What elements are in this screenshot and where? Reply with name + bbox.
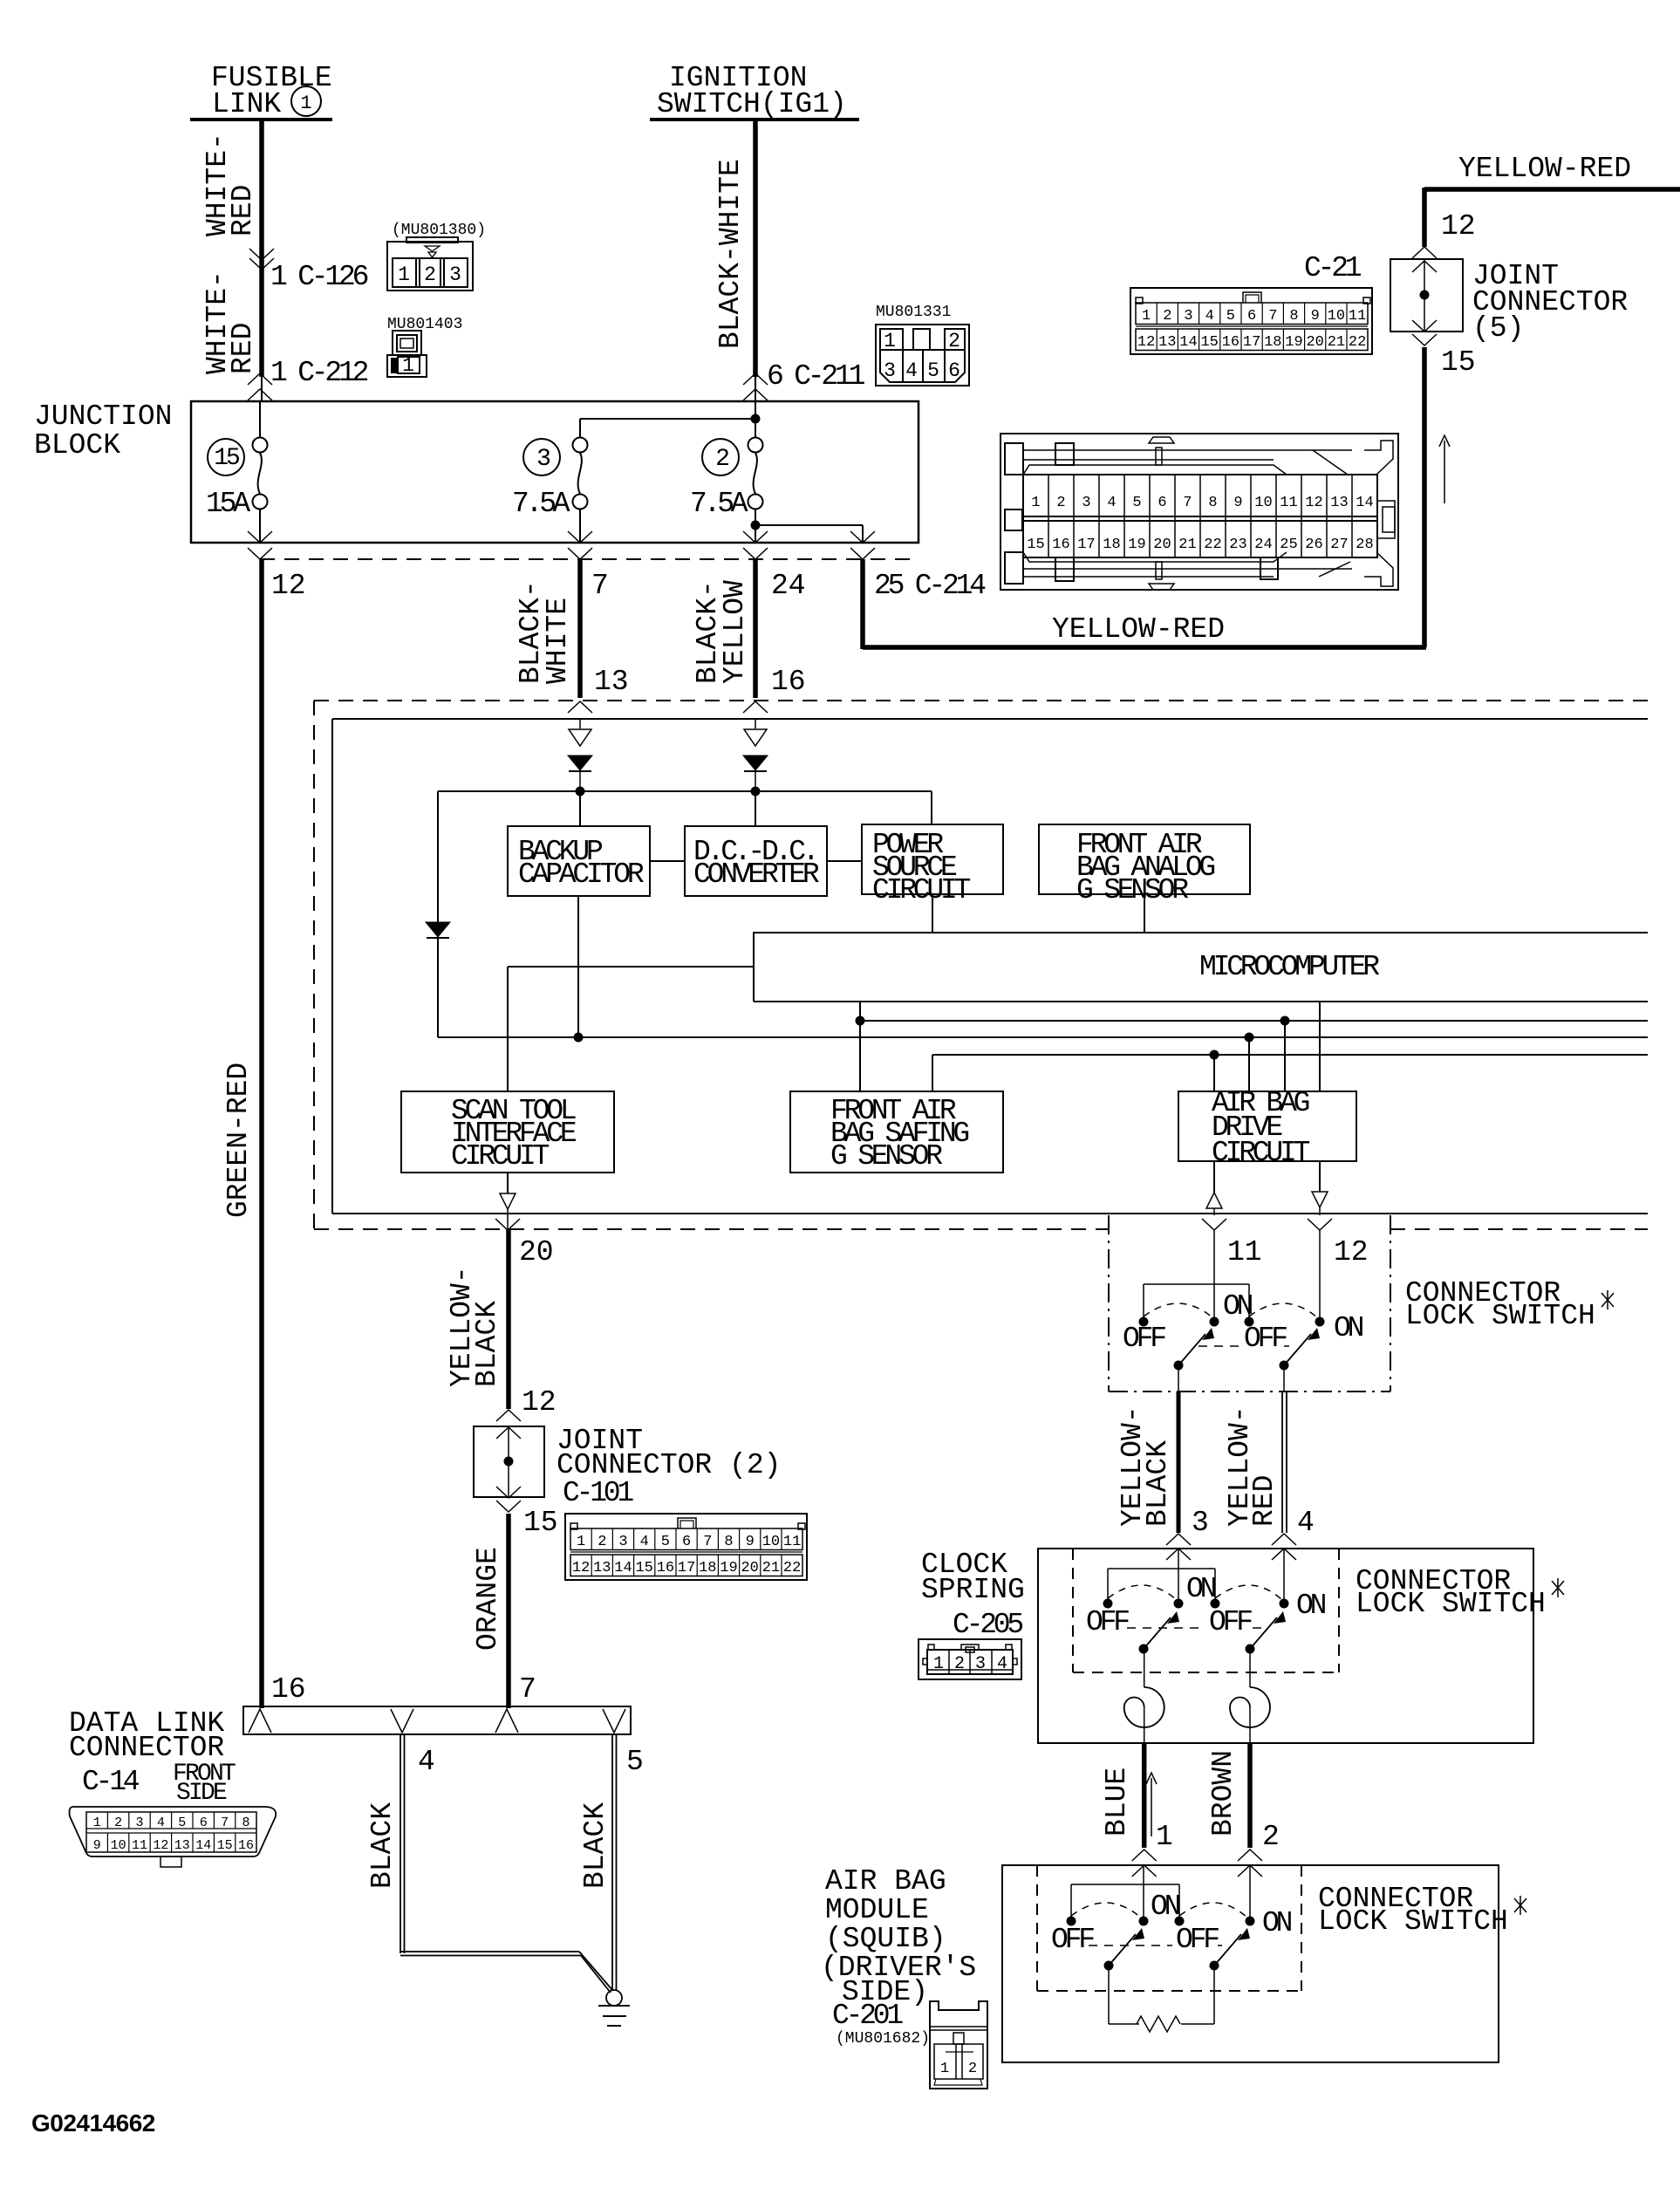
- wire junction block internal: fuse2 bottom to pin25: [751, 521, 864, 544]
- wire label WHITE-RED upper: [201, 133, 259, 236]
- connector lock switch 1 box: [1109, 1215, 1614, 1392]
- svg-text:7: 7: [519, 1673, 536, 1706]
- svg-text:1 C-212: 1 C-212: [270, 357, 368, 389]
- svg-text:CIRCUIT: CIRCUIT: [872, 874, 971, 906]
- junction block pin 12 exit: [248, 531, 306, 602]
- wire BLACK-WHITE fuse3 to SRS pin 13: [515, 559, 629, 713]
- block D.C.-D.C. CONVERTER: [650, 791, 827, 896]
- svg-text:27: 27: [1330, 537, 1348, 553]
- SRS air bag control unit inner solid box: [332, 719, 1648, 1214]
- svg-text:2: 2: [1163, 308, 1171, 325]
- microcomputer output line A: [856, 1016, 1649, 1026]
- svg-text:9: 9: [1311, 308, 1320, 325]
- svg-text:24: 24: [771, 570, 806, 602]
- label data link pin 4: [418, 1746, 435, 1778]
- connector icon C-212 (MU801403): [387, 316, 462, 377]
- block BACKUP CAPACITOR: [508, 791, 650, 1037]
- svg-text:CIRCUIT: CIRCUIT: [1212, 1137, 1310, 1169]
- svg-text:YELLOW-RED: YELLOW-RED: [1052, 613, 1225, 646]
- ground symbol: [598, 1990, 630, 2026]
- svg-text:BROWN: BROWN: [1207, 1750, 1240, 1836]
- junction block pin 7 exit: [568, 531, 609, 602]
- svg-text:14: 14: [1356, 495, 1373, 511]
- wire label BLACK-WHITE: [714, 159, 747, 349]
- lock switch 1 labels ON OFF: [1123, 1290, 1363, 1355]
- junction block box: [34, 400, 919, 543]
- figure number G02414662: [31, 2110, 155, 2137]
- svg-text:G02414662: G02414662: [31, 2110, 155, 2137]
- svg-text:OFF: OFF: [1051, 1924, 1094, 1956]
- protection diode on line 16: [743, 719, 768, 791]
- svg-text:1: 1: [398, 263, 410, 286]
- svg-text:CONNECTOR: CONNECTOR: [69, 1732, 224, 1764]
- svg-text:1: 1: [300, 92, 311, 114]
- connector C-214 pin row (dashed) under junction block: [260, 558, 919, 560]
- svg-text:GREEN-RED: GREEN-RED: [222, 1063, 255, 1218]
- svg-text:6: 6: [1247, 308, 1256, 325]
- svg-text:2: 2: [1056, 495, 1065, 511]
- svg-text:23: 23: [1229, 537, 1246, 553]
- svg-text:1: 1: [1142, 308, 1151, 325]
- svg-text:3: 3: [1192, 1507, 1209, 1539]
- clock spring coil 2: [1230, 1649, 1270, 1743]
- svg-text:18: 18: [1103, 537, 1120, 553]
- svg-text:BLACK: BLACK: [579, 1802, 611, 1889]
- svg-text:13: 13: [1158, 334, 1176, 351]
- svg-text:10: 10: [1328, 308, 1345, 325]
- svg-text:6: 6: [948, 359, 960, 382]
- lock switch 3 travel arcs: [1071, 1903, 1247, 1918]
- data link connector pin 4: [391, 1709, 413, 1733]
- svg-text:(5): (5): [1472, 312, 1524, 345]
- svg-text:10: 10: [111, 1838, 126, 1853]
- lock switch 2 travel arcs: [1108, 1585, 1282, 1600]
- svg-text:BLACK-WHITE: BLACK-WHITE: [714, 159, 747, 349]
- svg-text:20: 20: [519, 1236, 554, 1268]
- left branch with diode to scan line: [426, 791, 450, 1037]
- svg-text:OFF: OFF: [1123, 1323, 1165, 1355]
- wire GREEN-RED junction block pin12 to data link pin16: [222, 559, 306, 1708]
- svg-text:5: 5: [626, 1746, 644, 1778]
- svg-text:1: 1: [933, 1654, 944, 1674]
- block FRONT AIR BAG ANALOG G SENSOR: [1039, 824, 1250, 933]
- data link connector pin 7: [495, 1709, 518, 1733]
- svg-text:ON: ON: [1151, 1891, 1180, 1923]
- label data link pin 5: [626, 1746, 644, 1778]
- svg-text:16: 16: [271, 1673, 306, 1706]
- connector icon C-201 (MU801682): [930, 2001, 987, 2089]
- block AIR BAG DRIVE CIRCUIT: [1178, 1002, 1356, 1169]
- svg-text:(MU801682): (MU801682): [836, 2030, 930, 2048]
- svg-text:17: 17: [1243, 334, 1260, 351]
- svg-text:3: 3: [1184, 308, 1192, 325]
- data link connector box: [69, 1706, 631, 1807]
- lock switch 1 pole blades: [1174, 1328, 1321, 1371]
- lock switch 3 pole blades: [1089, 1928, 1250, 1971]
- svg-text:13: 13: [594, 666, 629, 698]
- svg-text:25: 25: [1280, 537, 1297, 553]
- power source IGNITION SWITCH (IG1): [650, 62, 859, 120]
- svg-text:CIRCUIT: CIRCUIT: [451, 1140, 550, 1173]
- fuse 3 (7.5A): [512, 419, 588, 543]
- svg-text:11: 11: [1227, 1236, 1262, 1268]
- svg-text:YELLOW: YELLOW: [719, 580, 751, 684]
- svg-text:22: 22: [1349, 334, 1366, 351]
- svg-text:15: 15: [1441, 346, 1476, 379]
- svg-text:17: 17: [678, 1560, 695, 1576]
- power source FUSIBLE LINK 1: [190, 62, 332, 120]
- svg-text:JUNCTION: JUNCTION: [34, 400, 172, 433]
- svg-text:9: 9: [746, 1534, 755, 1550]
- wire scan tool to microcomputer: [508, 967, 754, 1091]
- svg-text:C-205: C-205: [953, 1609, 1022, 1641]
- svg-text:5: 5: [1132, 495, 1141, 511]
- svg-text:12: 12: [271, 570, 306, 602]
- svg-text:15: 15: [1200, 334, 1218, 351]
- drive circuit output pin 11 triangle: [1202, 1161, 1262, 1268]
- svg-text:8: 8: [1289, 308, 1298, 325]
- svg-text:OFF: OFF: [1244, 1323, 1287, 1355]
- svg-text:2: 2: [424, 263, 436, 286]
- svg-text:LOCK SWITCH: LOCK SWITCH: [1356, 1588, 1546, 1620]
- svg-text:4: 4: [418, 1746, 435, 1778]
- microcomputer output line B: [438, 1033, 1648, 1043]
- scan tool output with triangle to pin 20: [495, 1173, 554, 1268]
- svg-text:1: 1: [1156, 1821, 1173, 1853]
- wire YELLOW-RED lock switch to clock spring pin 4: [1224, 1365, 1315, 1560]
- svg-text:2: 2: [968, 2061, 977, 2077]
- svg-text:BLACK: BLACK: [366, 1802, 399, 1889]
- svg-text:11: 11: [1280, 495, 1297, 511]
- connector icon C-126 (MU801380): [387, 222, 486, 291]
- lock switch 3 OFF contacts bracket: [1067, 1884, 1185, 1926]
- svg-text:21: 21: [762, 1560, 780, 1576]
- svg-text:1: 1: [884, 330, 896, 352]
- wire label WHITE-RED lower: [201, 270, 259, 374]
- svg-text:MICROCOMPUTER: MICROCOMPUTER: [1199, 951, 1379, 983]
- fuse 2 (7.5A): [690, 401, 763, 543]
- wire BLACK data link pin4 to ground: [366, 1734, 612, 1993]
- svg-text:7: 7: [591, 570, 609, 602]
- svg-text:8: 8: [1208, 495, 1217, 511]
- svg-text:14: 14: [614, 1560, 632, 1576]
- svg-text:3: 3: [135, 1815, 143, 1830]
- connector C-211 pin 6 entry to junction block: [743, 360, 865, 400]
- connector icon C-205: [919, 1639, 1021, 1679]
- svg-text:12: 12: [1305, 495, 1322, 511]
- svg-text:22: 22: [783, 1560, 801, 1576]
- svg-text:12: 12: [1441, 210, 1476, 243]
- connector icon C-14 (16 pin OBD): [70, 1807, 277, 1867]
- svg-text:9: 9: [1233, 495, 1242, 511]
- svg-text:1: 1: [402, 354, 414, 377]
- svg-text:7.5A: 7.5A: [690, 488, 748, 520]
- svg-text:7.5A: 7.5A: [512, 488, 570, 520]
- lock switch 3 labels ON OFF: [1051, 1891, 1292, 1956]
- svg-text:6: 6: [1158, 495, 1166, 511]
- joint connector (5) C-21 pin 12 entry: [1412, 210, 1476, 272]
- svg-text:CONVERTER: CONVERTER: [693, 858, 819, 891]
- joint connector (2) pin 15 exit: [496, 1487, 558, 1539]
- svg-text:24: 24: [1254, 537, 1272, 553]
- svg-text:BLOCK: BLOCK: [34, 429, 120, 462]
- wire BLACK data link pin5 to ground: [579, 1734, 617, 1991]
- direction arrow near C-214: [1439, 435, 1450, 503]
- joint connector (5) pin 15 exit: [1412, 320, 1476, 379]
- svg-text:MU801331: MU801331: [876, 304, 951, 321]
- svg-text:2: 2: [114, 1815, 122, 1830]
- svg-text:9: 9: [93, 1838, 101, 1853]
- svg-text:14: 14: [195, 1838, 211, 1853]
- svg-text:18: 18: [699, 1560, 716, 1576]
- svg-text:4: 4: [905, 359, 918, 382]
- wire BLACK-YELLOW fuse2 to SRS pin 16: [692, 559, 806, 713]
- svg-text:19: 19: [1285, 334, 1302, 351]
- svg-text:19: 19: [1128, 537, 1145, 553]
- svg-text:ON: ON: [1296, 1590, 1326, 1622]
- lock switch 2 wire 4 to ON contact: [1280, 1549, 1289, 1609]
- svg-text:8: 8: [242, 1815, 249, 1830]
- internal supply bus: [438, 787, 932, 825]
- wire microcomputer to safing sensor: [859, 1002, 861, 1091]
- connector C-212 pin 1 entry to junction block: [248, 357, 368, 400]
- svg-text:16: 16: [1222, 334, 1240, 351]
- wire junction block internal: fuse3 top to IG1 feed: [580, 414, 761, 424]
- svg-text:C-21: C-21: [1304, 252, 1362, 284]
- block MICROCOMPUTER: [754, 933, 1648, 1002]
- wire BLACK-WHITE from ignition switch: [753, 120, 758, 401]
- svg-text:21: 21: [1178, 537, 1196, 553]
- lock switch 2 labels ON OFF: [1086, 1573, 1326, 1638]
- svg-text:1: 1: [940, 2061, 949, 2077]
- svg-text:16: 16: [771, 666, 806, 698]
- svg-text:SIDE: SIDE: [176, 1780, 227, 1807]
- svg-text:SWITCH(IG1): SWITCH(IG1): [657, 88, 847, 120]
- svg-text:G SENSOR: G SENSOR: [830, 1140, 942, 1173]
- protection diode on line 13: [568, 719, 592, 791]
- svg-text:4: 4: [1107, 495, 1116, 511]
- svg-text:7: 7: [1268, 308, 1277, 325]
- svg-text:2: 2: [1262, 1821, 1280, 1853]
- wire BLUE clock spring to air bag module pin 1: [1101, 1743, 1173, 1877]
- lock switch 3 wire 2 to ON contact: [1246, 1865, 1255, 1926]
- connector icon C-21 (22 pin): [1130, 252, 1372, 354]
- svg-text:OFF: OFF: [1209, 1606, 1252, 1638]
- svg-text:12: 12: [572, 1560, 590, 1576]
- clock spring box: [921, 1549, 1533, 1743]
- svg-text:16: 16: [238, 1838, 254, 1853]
- block FRONT AIR BAG SAFING G SENSOR: [790, 1091, 1003, 1173]
- svg-text:RED: RED: [1248, 1475, 1280, 1527]
- svg-text:13: 13: [174, 1838, 190, 1853]
- svg-text:26: 26: [1305, 537, 1322, 553]
- svg-text:RED: RED: [227, 323, 259, 374]
- svg-text:C-14: C-14: [82, 1766, 140, 1798]
- svg-text:4: 4: [1205, 308, 1214, 325]
- svg-text:ON: ON: [1262, 1907, 1292, 1939]
- lock switch 1 travel arcs: [1144, 1303, 1318, 1318]
- clock spring coil 1: [1124, 1649, 1164, 1743]
- svg-text:OFF: OFF: [1176, 1924, 1219, 1956]
- svg-text:17: 17: [1077, 537, 1095, 553]
- svg-text:15A: 15A: [206, 488, 250, 520]
- svg-text:1: 1: [577, 1534, 585, 1550]
- lock switch 2 pole blades: [1127, 1611, 1286, 1654]
- connector icon C-211 (MU801331): [876, 304, 969, 386]
- svg-text:BLACK: BLACK: [471, 1301, 503, 1387]
- wire YELLOW-BLACK lock switch to clock spring pin 3: [1117, 1365, 1209, 1560]
- svg-text:ON: ON: [1186, 1573, 1216, 1605]
- svg-text:12: 12: [1137, 334, 1155, 351]
- svg-text:20: 20: [1306, 334, 1323, 351]
- svg-text:CAPACITOR: CAPACITOR: [518, 858, 644, 891]
- svg-text:16: 16: [1052, 537, 1069, 553]
- svg-text:10: 10: [762, 1534, 780, 1550]
- svg-text:12: 12: [522, 1386, 557, 1419]
- wire YELLOW-RED pin25 drop: [860, 559, 865, 649]
- svg-text:(SQUIB): (SQUIB): [825, 1923, 946, 1955]
- wire WHITE-RED from fusible link: [259, 120, 264, 401]
- svg-text:AIR BAG: AIR BAG: [825, 1865, 946, 1898]
- svg-text:7: 7: [221, 1815, 229, 1830]
- svg-text:12: 12: [153, 1838, 168, 1853]
- svg-text:16: 16: [657, 1560, 674, 1576]
- joint connector (5) box: [1390, 259, 1628, 345]
- svg-text:C-101: C-101: [563, 1477, 633, 1509]
- svg-text:ORANGE: ORANGE: [472, 1547, 504, 1651]
- wire ORANGE joint connector 2 to data link pin 7: [472, 1514, 536, 1708]
- svg-text:8: 8: [724, 1534, 733, 1550]
- svg-text:SPRING: SPRING: [921, 1574, 1025, 1606]
- junction block pin 24 exit: [743, 531, 806, 602]
- svg-text:28: 28: [1356, 537, 1373, 553]
- svg-text:25 C-214: 25 C-214: [874, 570, 986, 602]
- svg-text:4: 4: [640, 1534, 649, 1550]
- svg-text:11: 11: [132, 1838, 147, 1853]
- svg-text:5: 5: [178, 1815, 186, 1830]
- fuse 15 (15A): [206, 401, 268, 543]
- squib resistor: [1109, 1966, 1214, 2032]
- svg-text:2: 2: [715, 446, 728, 473]
- svg-text:4: 4: [997, 1654, 1007, 1674]
- svg-text:13: 13: [1330, 495, 1348, 511]
- svg-text:6: 6: [682, 1534, 691, 1550]
- svg-text:12: 12: [1334, 1236, 1369, 1268]
- svg-text:3: 3: [618, 1534, 627, 1550]
- wire label YELLOW-RED under C-214: [1052, 613, 1225, 646]
- svg-text:13: 13: [593, 1560, 611, 1576]
- svg-text:19: 19: [720, 1560, 737, 1576]
- svg-text:6 C-211: 6 C-211: [767, 360, 865, 393]
- svg-text:15: 15: [217, 1838, 233, 1853]
- svg-text:4: 4: [157, 1815, 165, 1830]
- svg-text:ON: ON: [1334, 1312, 1363, 1344]
- direction arrow near BLUE wire: [1146, 1773, 1157, 1836]
- svg-text:BLUE: BLUE: [1101, 1768, 1133, 1836]
- svg-text:18: 18: [1264, 334, 1281, 351]
- svg-text:YELLOW-RED: YELLOW-RED: [1458, 153, 1631, 185]
- data link connector pin 5: [603, 1709, 625, 1733]
- svg-text:BLACK: BLACK: [1142, 1440, 1174, 1527]
- svg-text:22: 22: [1204, 537, 1221, 553]
- connector C-126 inline marker pin 1: [249, 249, 368, 293]
- svg-text:C-201: C-201: [832, 2000, 903, 2032]
- svg-text:15: 15: [1027, 537, 1044, 553]
- svg-text:ON: ON: [1223, 1290, 1253, 1323]
- svg-text:MODULE: MODULE: [825, 1894, 929, 1926]
- svg-text:LOCK SWITCH: LOCK SWITCH: [1405, 1300, 1595, 1332]
- svg-text:2: 2: [948, 330, 960, 352]
- wire YELLOW-BLACK SRS pin20 to joint connector 2: [446, 1229, 557, 1439]
- svg-text:3: 3: [1082, 495, 1090, 511]
- svg-text:OFF: OFF: [1086, 1606, 1129, 1638]
- svg-text:4: 4: [1297, 1507, 1315, 1539]
- connector lock switch 3 box (dashed): [1037, 1865, 1526, 1991]
- svg-text:3: 3: [449, 263, 461, 286]
- svg-text:20: 20: [741, 1560, 758, 1576]
- svg-text:10: 10: [1254, 495, 1272, 511]
- lock switch 3 wire 1 to ON contact: [1139, 1865, 1149, 1926]
- svg-text:1 C-126: 1 C-126: [270, 261, 368, 293]
- lock switch 2 wire 3 to ON contact: [1174, 1549, 1184, 1609]
- microcomputer output line C: [932, 1050, 1648, 1092]
- svg-text:15: 15: [635, 1560, 652, 1576]
- svg-text:1: 1: [1031, 495, 1040, 511]
- svg-text:7: 7: [1183, 495, 1192, 511]
- joint connector (2) box C-101 pin 12: [474, 1425, 781, 1509]
- connector icon C-214 (28 pin): [1000, 434, 1398, 590]
- svg-text:5: 5: [661, 1534, 670, 1550]
- block SCAN TOOL INTERFACE CIRCUIT: [401, 1091, 614, 1173]
- svg-text:14: 14: [1179, 334, 1197, 351]
- svg-text:1: 1: [93, 1815, 101, 1830]
- svg-text:15: 15: [214, 445, 240, 472]
- svg-text:3: 3: [884, 359, 896, 382]
- SRS air bag control unit outer dashed box: [314, 701, 1648, 1229]
- block POWER SOURCE CIRCUIT: [827, 824, 1003, 933]
- junction block pin 25 exit C-214: [850, 531, 986, 602]
- svg-text:2: 2: [598, 1534, 606, 1550]
- svg-text:5: 5: [927, 359, 939, 382]
- lock switch 1 wire 12 to ON contact: [1315, 1229, 1325, 1327]
- svg-text:7: 7: [703, 1534, 712, 1550]
- lock switch 1 OFF contacts bracket: [1139, 1284, 1254, 1327]
- svg-text:3: 3: [975, 1654, 986, 1674]
- svg-text:21: 21: [1328, 334, 1345, 351]
- lock switch 2 OFF contacts bracket: [1103, 1569, 1220, 1609]
- svg-text:WHITE: WHITE: [542, 598, 574, 684]
- svg-text:5: 5: [1226, 308, 1235, 325]
- svg-text:15: 15: [523, 1507, 558, 1539]
- lock switch 1 wire 11 to ON contact: [1210, 1229, 1219, 1327]
- svg-text:RED: RED: [227, 185, 259, 236]
- wire YELLOW-RED top right to off-page: [1424, 153, 1680, 247]
- svg-text:11: 11: [783, 1534, 801, 1550]
- svg-text:2: 2: [954, 1654, 965, 1674]
- connector lock switch 2 box (dashed): [1073, 1549, 1564, 1672]
- wire YELLOW-RED from joint connector 5 down to C-214 line: [863, 347, 1426, 647]
- svg-text:11: 11: [1349, 308, 1366, 325]
- wire BROWN clock spring to air bag module pin 2: [1207, 1743, 1280, 1877]
- svg-text:3: 3: [536, 446, 550, 473]
- air bag module (squib) box: [821, 1865, 1499, 2062]
- connector icon C-101 (22 pin): [565, 1514, 807, 1580]
- svg-text:20: 20: [1153, 537, 1171, 553]
- svg-text:G SENSOR: G SENSOR: [1076, 874, 1188, 906]
- svg-text:LINK: LINK: [212, 88, 281, 120]
- svg-text:LOCK SWITCH: LOCK SWITCH: [1318, 1905, 1508, 1938]
- data link connector pin 16: [249, 1709, 271, 1733]
